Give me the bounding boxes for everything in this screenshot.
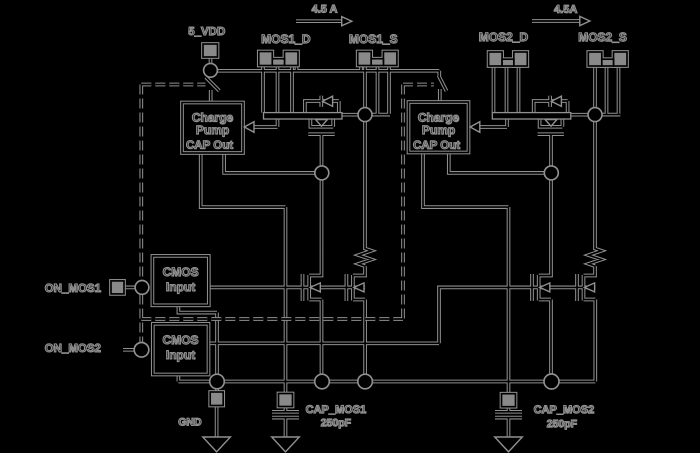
svg-text:CMOS: CMOS [163,265,199,279]
svg-text:5_VDD: 5_VDD [188,26,225,38]
svg-text:4.5 A: 4.5 A [312,3,338,15]
svg-text:Pump: Pump [196,123,229,137]
svg-text:CMOS: CMOS [163,333,199,347]
svg-text:4.5A: 4.5A [554,4,577,16]
svg-text:MOS1_D: MOS1_D [261,32,311,46]
svg-text:Input: Input [166,348,195,362]
svg-text:MOS2_D: MOS2_D [479,30,529,44]
svg-text:ON_MOS1: ON_MOS1 [45,283,102,295]
svg-text:MOS2_S: MOS2_S [578,30,627,44]
svg-text:CAP Out: CAP Out [413,140,460,152]
svg-text:CAP_MOS2: CAP_MOS2 [534,404,595,416]
svg-text:Input: Input [166,280,195,294]
svg-text:MOS1_S: MOS1_S [349,32,398,46]
svg-text:250pF: 250pF [321,417,352,429]
svg-text:250pF: 250pF [547,418,578,430]
svg-text:CAP Out: CAP Out [186,140,233,152]
svg-text:Pump: Pump [422,123,455,137]
svg-text:CAP_MOS1: CAP_MOS1 [306,404,367,416]
svg-text:ON_MOS2: ON_MOS2 [45,343,101,355]
svg-text:GND: GND [178,416,202,428]
